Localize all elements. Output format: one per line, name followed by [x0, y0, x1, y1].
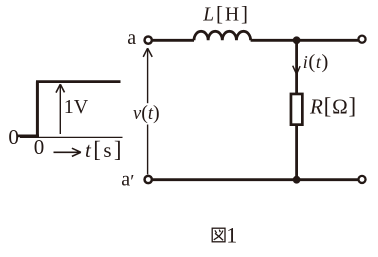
junction top node	[293, 36, 301, 44]
terminal a (open circle)	[145, 36, 152, 43]
waveform 1V level segment	[36, 80, 121, 83]
source waveform time axis	[20, 136, 123, 138]
resistor R1	[291, 94, 302, 125]
wire resistor branch lower	[295, 124, 298, 180]
waveform zero-level segment	[17, 134, 40, 137]
voltage arrow v(t) lower segment	[147, 125, 149, 175]
wire top right (inductor to terminal)	[251, 39, 358, 42]
waveform step edge	[36, 82, 39, 137]
wire bottom (a' to terminal)	[153, 178, 358, 181]
t-axis arrow	[54, 148, 81, 156]
1V amplitude arrow	[56, 84, 65, 134]
terminal top-right (open circle)	[358, 36, 365, 43]
wire resistor branch upper	[295, 40, 298, 94]
inductor L1	[194, 31, 251, 40]
junction bottom node	[293, 176, 301, 184]
svg-text:0: 0	[34, 135, 45, 159]
terminal bottom-right (open circle)	[358, 176, 365, 183]
terminal a' (open circle)	[145, 176, 152, 183]
voltage arrow v(t) upper segment with open head	[143, 48, 152, 103]
svg-text:1: 1	[226, 222, 237, 247]
wire top left (a to inductor)	[153, 39, 194, 42]
svg-text:t[s]: t[s]	[85, 137, 124, 162]
svg-text:a′: a′	[121, 169, 134, 193]
svg-text:R[Ω]: R[Ω]	[309, 93, 357, 118]
svg-text:a: a	[127, 27, 136, 49]
svg-text:v(t): v(t)	[133, 102, 160, 124]
current arrow i(t)	[293, 66, 300, 75]
svg-text:L[H]: L[H]	[202, 2, 250, 26]
svg-text:0: 0	[8, 125, 19, 149]
svg-text:i(t): i(t)	[303, 51, 329, 73]
svg-text:1V: 1V	[64, 96, 89, 118]
caption glyph ZU (box)	[212, 228, 225, 242]
